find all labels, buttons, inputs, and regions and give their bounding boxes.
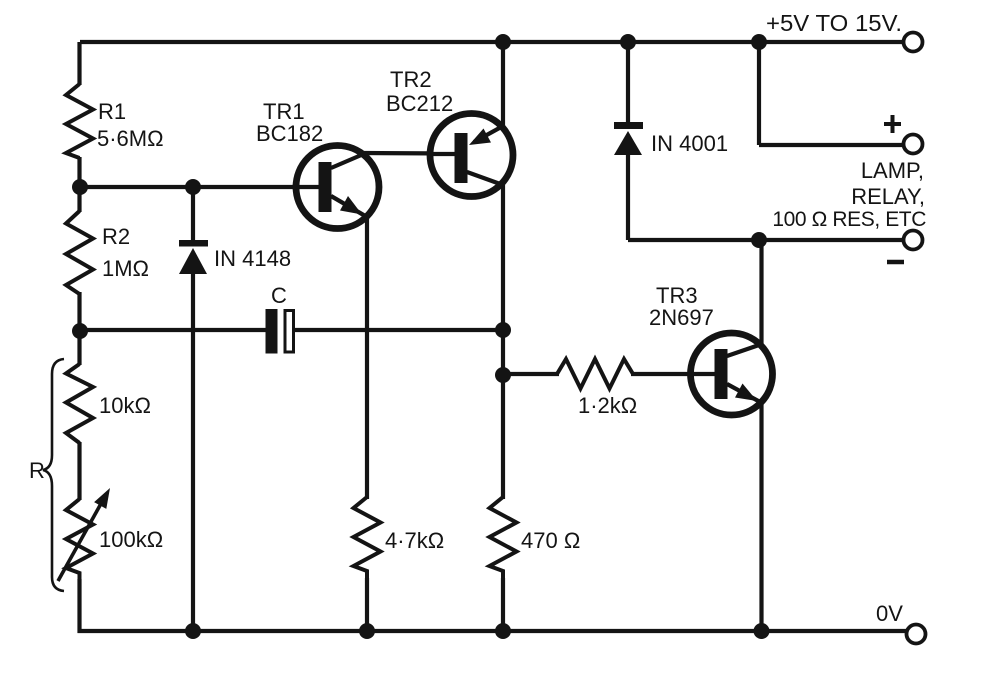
svg-text:R: R [29, 458, 45, 483]
svg-text:TR2: TR2 [390, 67, 432, 92]
wire top supply rail [80, 40, 904, 44]
resistor 470 [490, 497, 581, 579]
svg-text:1·2kΩ: 1·2kΩ [578, 393, 637, 418]
terminal minus [904, 231, 923, 250]
label plus sign [884, 115, 901, 133]
wire left rail top segment [77, 42, 81, 85]
wire TR1 collector to TR2 base [364, 151, 455, 156]
node 470 bottom junction dot [495, 623, 511, 639]
svg-text:RELAY,: RELAY, [851, 184, 925, 209]
node diode top junction dot [185, 179, 201, 195]
wire 470 to bottom rail [501, 578, 505, 631]
wire 1.2k to TR3 base [631, 372, 715, 376]
diode IN4001 [614, 42, 728, 240]
svg-text:10kΩ: 10kΩ [99, 393, 151, 418]
svg-text:4·7kΩ: 4·7kΩ [385, 528, 444, 553]
svg-text:R2: R2 [102, 224, 130, 249]
svg-text:2N697: 2N697 [649, 305, 714, 330]
wire TR2 collector down to 470 [501, 184, 505, 499]
node top rail TR2 junction dot [495, 34, 511, 50]
diode IN4148 [179, 187, 291, 631]
resistor 4.7k [354, 497, 445, 579]
label LAMP RELAY RES ETC [772, 158, 926, 231]
wire node B to capacitor [80, 328, 267, 332]
node minus wire junction dot [751, 232, 767, 248]
terminal plus [904, 135, 923, 154]
variable resistor 100k [58, 488, 163, 581]
svg-text:R1: R1 [98, 99, 126, 124]
svg-text:BC212: BC212 [386, 91, 453, 116]
svg-text:5·6MΩ: 5·6MΩ [97, 126, 164, 151]
capacitor C [266, 283, 294, 354]
svg-text:IN 4001: IN 4001 [651, 131, 728, 156]
svg-text:IN 4148: IN 4148 [214, 246, 291, 271]
resistor R1 [66, 84, 164, 158]
transistor TR2 BC212 [386, 67, 513, 197]
node TR3 bottom rail junction dot [754, 623, 770, 639]
svg-text:C: C [271, 283, 287, 308]
svg-text:LAMP,: LAMP, [861, 158, 924, 183]
node B junction dot [72, 323, 88, 339]
terminal +5V [904, 33, 923, 52]
label minus sign [887, 260, 904, 265]
node D junction dot [495, 367, 511, 383]
node A junction dot [72, 179, 88, 195]
wire node A to TR1 base [80, 185, 319, 189]
svg-text:BC182: BC182 [256, 121, 323, 146]
resistor R2 [66, 211, 149, 294]
svg-text:100 Ω RES, ETC: 100 Ω RES, ETC [772, 208, 926, 231]
wire 10k to 100k [77, 442, 81, 500]
svg-text:470 Ω: 470 Ω [521, 528, 580, 553]
svg-text:1MΩ: 1MΩ [102, 256, 149, 281]
wire R2 to node B [77, 292, 81, 365]
svg-text:100kΩ: 100kΩ [99, 527, 163, 552]
resistor 10k (fixed part of R) [66, 364, 151, 443]
wire top rail to TR2 emitter [501, 42, 505, 127]
wire node D to 1.2k [503, 372, 559, 376]
wire minus node down to TR3 collector [759, 240, 763, 346]
node top rail diode junction dot [620, 34, 636, 50]
transistor TR1 BC182 [256, 99, 379, 229]
svg-text:+5V TO 15V.: +5V TO 15V. [766, 10, 902, 36]
wire top rail to plus terminal [759, 42, 904, 145]
terminal 0V [907, 625, 926, 644]
wire capacitor to node C [295, 328, 503, 332]
wire R1 to node A [77, 157, 81, 212]
node top rail plus branch junction dot [751, 34, 767, 50]
resistor 1.2k [557, 359, 637, 418]
wire TR3 emitter to bottom rail [759, 402, 763, 631]
wire bottom rail [78, 629, 908, 633]
wire TR1 emitter down to 4.7k [365, 216, 369, 499]
node C junction dot [495, 322, 511, 338]
brace and label R [29, 359, 64, 591]
transistor TR3 2N697 [649, 283, 773, 415]
wire 100k to bottom rail [77, 579, 81, 633]
node diode bottom junction dot [185, 623, 201, 639]
svg-text:0V: 0V [876, 601, 903, 626]
wire 4.7k to bottom rail [365, 578, 369, 631]
node 4.7k bottom junction dot [359, 623, 375, 639]
wire diode to minus terminal [628, 238, 904, 242]
